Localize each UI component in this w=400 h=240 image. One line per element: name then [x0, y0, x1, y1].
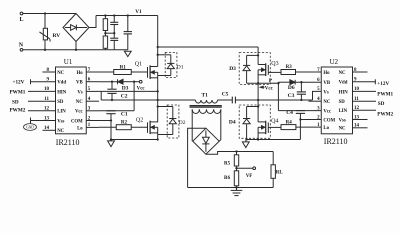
wire ground rail leg1: [111, 139, 158, 141]
svg-text:D3: D3: [122, 85, 129, 91]
svg-text:12: 12: [44, 107, 50, 112]
transformer T1 secondary winding: [192, 109, 199, 113]
wire Vs rail / transformer primary feed: [101, 99, 195, 101]
wire H-bridge top rail: [158, 46, 258, 48]
svg-text:C3: C3: [288, 93, 295, 99]
svg-text:Vs: Vs: [77, 90, 82, 95]
U1 pin 3 Vcc: [86, 110, 99, 112]
wire Q1 source / phase vertical leg1: [157, 72, 159, 122]
terminal L (AC line input): [20, 12, 23, 15]
svg-text:SD: SD: [12, 99, 19, 105]
svg-text:Ho: Ho: [77, 71, 84, 76]
U1 pin 6 VB: [86, 81, 99, 83]
dashed box around D2: [167, 105, 179, 138]
svg-text:14: 14: [354, 124, 360, 129]
svg-text:COM: COM: [323, 118, 335, 123]
wire U2 COM return: [300, 119, 321, 121]
U2 pin 8 NC: [353, 71, 368, 73]
svg-text:SD: SD: [378, 101, 385, 107]
transformer core: [190, 105, 222, 107]
U2 pin 14 NC: [353, 127, 368, 129]
diode D3 body diode leg2: [247, 54, 259, 56]
varistor RV: [44, 14, 46, 29]
U1 pin 12 LIN: [28, 110, 56, 112]
svg-text:RL: RL: [276, 170, 284, 175]
wire Vs step down leg1: [100, 91, 102, 100]
capacitor C5 DC blocking: [218, 99, 233, 101]
U2 pin 9 Vdd: [353, 81, 376, 83]
svg-text:D4: D4: [229, 120, 236, 126]
label +12V supply U2: [374, 79, 376, 84]
svg-text:R3: R3: [286, 65, 293, 70]
wire V1 drop to H-bridge rail: [157, 16, 159, 48]
svg-text:Vss: Vss: [339, 118, 346, 123]
bleeder resistor lower: [104, 31, 106, 37]
svg-text:Lo: Lo: [323, 126, 329, 131]
svg-text:VB: VB: [323, 81, 330, 86]
input bridge rectifier: [63, 14, 89, 42]
terminal circle VF: [253, 167, 256, 170]
svg-text:IR2110: IR2110: [56, 138, 80, 147]
ground arrow leg1: [110, 140, 112, 141]
wire output bridge positive to sense rail: [206, 152, 273, 155]
wire U1 Ho to R1: [99, 71, 114, 73]
svg-text:PWM1: PWM1: [377, 91, 393, 97]
svg-text:HIN: HIN: [57, 90, 67, 95]
svg-text:HIN: HIN: [339, 90, 349, 95]
wire bridge positive output to V1 rail: [89, 16, 96, 28]
wire R3 to U2 Ho: [296, 71, 322, 73]
resistor R1: [114, 70, 132, 75]
wire L to bridge top: [23, 13, 76, 15]
U1 pin 2 COM: [86, 120, 99, 122]
bulk filter capacitor: [127, 16, 129, 32]
ground earth under R6: [236, 188, 238, 191]
wire U2 Vcc rail: [278, 110, 321, 112]
svg-text:VB: VB: [76, 81, 83, 86]
wire output bridge negative to bottom rail: [188, 128, 206, 187]
wire C5 to leg2 phase and U2 Vs rail: [235, 99, 312, 101]
wire output bottom rail: [188, 187, 274, 189]
U1 pin 4 NC: [86, 100, 99, 102]
svg-text:Q3: Q3: [271, 61, 278, 67]
wire U1 Lo to R2: [99, 126, 116, 128]
resistor R3: [281, 70, 296, 75]
U2 pin 13 Vss: [353, 119, 368, 121]
wire U1 Vs to phase node: [99, 90, 158, 92]
U1 pin 7 Ho: [86, 71, 99, 73]
svg-text:D1: D1: [177, 64, 184, 70]
svg-text:D6: D6: [288, 85, 295, 91]
svg-text:C2: C2: [121, 93, 128, 99]
U1 pin 14 NC: [43, 129, 56, 131]
svg-text:Vcc: Vcc: [265, 87, 274, 92]
wire V1 top rail: [96, 15, 158, 17]
svg-text:10: 10: [354, 87, 360, 92]
wire R2 to Q2 gate: [131, 126, 147, 128]
resistor R6 sense divider lower: [236, 168, 238, 171]
U1 pin 13 Vss: [31, 120, 56, 122]
svg-text:Q1: Q1: [135, 62, 142, 68]
svg-text:RV: RV: [53, 33, 61, 39]
wire U1 Vcc rail: [99, 110, 134, 112]
svg-text:LIN: LIN: [57, 110, 66, 115]
wire U1 VB bootstrap: [99, 81, 117, 83]
svg-text:PWM1: PWM1: [10, 90, 26, 96]
capacitor C4 Vcc decoupling right: [296, 110, 305, 112]
svg-text:LIN: LIN: [339, 109, 348, 114]
svg-text:NC: NC: [76, 100, 83, 105]
U1 pin 1 Lo: [86, 126, 99, 128]
diode D3 bootstrap left: [117, 79, 119, 84]
svg-text:PWM2: PWM2: [10, 108, 26, 114]
op-amp U2 IR2110 gate driver: [321, 67, 352, 134]
wire R1 to Q1 gate: [131, 71, 147, 73]
svg-text:Vss: Vss: [57, 119, 64, 124]
svg-text:IR2110: IR2110: [324, 137, 348, 146]
svg-text:11: 11: [44, 97, 49, 102]
bleeder resistor upper: [104, 16, 106, 19]
svg-text:13: 13: [354, 115, 360, 120]
svg-text:SD: SD: [57, 100, 64, 105]
wire secondary right drop: [220, 109, 222, 139]
svg-text:NC: NC: [339, 71, 346, 76]
svg-text:12: 12: [354, 106, 360, 111]
wire Q2 source vertical: [157, 127, 159, 139]
svg-text:GND: GND: [26, 126, 34, 130]
svg-text:C1: C1: [121, 112, 128, 118]
svg-text:Vcc: Vcc: [75, 110, 84, 115]
terminal N (AC neutral input): [20, 48, 23, 51]
svg-text:VF: VF: [246, 174, 253, 179]
ground arrow leg2: [245, 140, 247, 142]
ground GND terminal U1: [30, 118, 32, 124]
svg-text:SD: SD: [339, 100, 346, 105]
resistor R4: [281, 125, 296, 130]
svg-text:Vdd: Vdd: [339, 81, 348, 86]
wire Q4 source vertical: [257, 127, 259, 139]
terminal arrow Vcc leg2: [260, 86, 264, 88]
diode D6 bootstrap right: [278, 81, 290, 83]
U1 pin 9 Vdd: [31, 81, 56, 83]
capacitor C3 bootstrap right: [300, 82, 302, 92]
svg-text:Ho: Ho: [323, 71, 330, 76]
svg-text:13: 13: [44, 116, 50, 121]
transistor Q1 MOSFET: [147, 67, 149, 78]
svg-text:Q2: Q2: [136, 118, 143, 124]
svg-text:C4: C4: [286, 110, 293, 116]
wire Vs step up right: [313, 91, 322, 100]
U2 pin 11 SD: [353, 100, 377, 102]
svg-text:+12V: +12V: [377, 81, 389, 87]
svg-text:L: L: [20, 17, 24, 23]
output bridge rectifier: [193, 128, 219, 154]
transistor Q4 MOSFET: [267, 122, 269, 132]
svg-text:10: 10: [44, 87, 50, 92]
U2 pin 4 NC: [309, 100, 322, 102]
svg-text:Vs: Vs: [323, 90, 328, 95]
filter capacitor lower (series pair): [113, 25, 115, 39]
ground arrow input filter: [124, 51, 131, 56]
svg-text:U1: U1: [64, 58, 73, 66]
wire secondary left drop: [191, 109, 193, 141]
svg-text:COM: COM: [71, 119, 83, 124]
svg-text:Vcc: Vcc: [323, 110, 332, 115]
U1 pin 5 Vs: [86, 90, 99, 92]
svg-text:NC: NC: [323, 100, 330, 105]
resistor R2: [116, 125, 131, 130]
wire P node horizontal: [247, 82, 279, 84]
resistor RL load: [272, 152, 274, 165]
svg-text:PWM2: PWM2: [377, 111, 393, 117]
node VF tap wire: [235, 167, 237, 169]
svg-text:V1: V1: [135, 9, 142, 15]
op-amp U1 IR2110 gate driver: [56, 67, 87, 134]
resistor R5 sense divider upper: [236, 152, 238, 155]
wire leg2 drain drop from rail: [257, 47, 259, 65]
svg-text:U2: U2: [330, 58, 339, 66]
dashed box around D4 and Q4: [239, 105, 270, 138]
wire R4 to Q4 gate: [268, 126, 281, 128]
dashed box around D1: [165, 52, 177, 77]
svg-text:R5: R5: [224, 161, 231, 166]
svg-text:D2: D2: [179, 120, 186, 126]
wire P node down to U2 Vcc rail: [277, 83, 279, 110]
U1 pin 10 HIN: [28, 90, 56, 92]
dashed box around D3 and Q3: [239, 53, 270, 85]
diode D4 body diode leg2: [247, 106, 259, 108]
diode D2 body diode: [158, 106, 173, 108]
svg-text:N: N: [19, 42, 24, 48]
U2 pin 12 LIN: [353, 109, 377, 111]
wire divider midpoint tie: [105, 32, 114, 34]
svg-text:R2: R2: [121, 120, 128, 125]
svg-text:Vdd: Vdd: [57, 81, 66, 86]
svg-text:14: 14: [44, 126, 50, 131]
transformer T1 primary winding: [196, 100, 202, 103]
svg-text:Lo: Lo: [77, 126, 83, 131]
U2 pin 10 HIN: [353, 90, 377, 92]
wire N rail to filter ground: [23, 49, 128, 51]
svg-text:+12V: +12V: [13, 80, 25, 86]
svg-text:R4: R4: [286, 120, 293, 125]
svg-text:NC: NC: [57, 129, 64, 134]
svg-text:Q4: Q4: [271, 118, 278, 124]
wire U2 Lo to R4: [296, 126, 321, 128]
svg-text:NC: NC: [57, 71, 64, 76]
wire VB node to Vcc terminal: [133, 81, 139, 83]
capacitor C1 Vcc decoupling: [106, 110, 115, 112]
filter capacitor upper (series pair): [113, 16, 115, 23]
diode D1 body diode: [158, 54, 171, 56]
svg-text:NC: NC: [339, 127, 346, 132]
wire ground rail leg2: [247, 139, 301, 141]
wire Q3 gate to R3: [268, 71, 281, 73]
svg-text:R1: R1: [120, 65, 127, 70]
svg-text:R6: R6: [224, 176, 231, 181]
svg-text:Vcc: Vcc: [137, 87, 146, 92]
capacitor C2 bootstrap: [111, 82, 113, 90]
svg-text:11: 11: [354, 97, 359, 102]
transistor Q2 MOSFET: [147, 122, 149, 132]
wire U1 COM return: [99, 120, 111, 122]
U1 pin 11 SD: [28, 100, 56, 102]
svg-text:D3: D3: [229, 66, 236, 72]
wire D3 anode down to Vcc rail: [133, 82, 135, 111]
svg-text:C5: C5: [222, 92, 229, 98]
U1 pin 8 NC: [43, 71, 56, 73]
transistor Q3 MOSFET: [267, 65, 269, 75]
wire Q3 source / phase vertical leg2: [257, 70, 259, 122]
terminal circle Vcc leg1: [139, 80, 142, 83]
wire Q1 drain vertical: [157, 47, 159, 67]
svg-text:T1: T1: [202, 92, 209, 98]
